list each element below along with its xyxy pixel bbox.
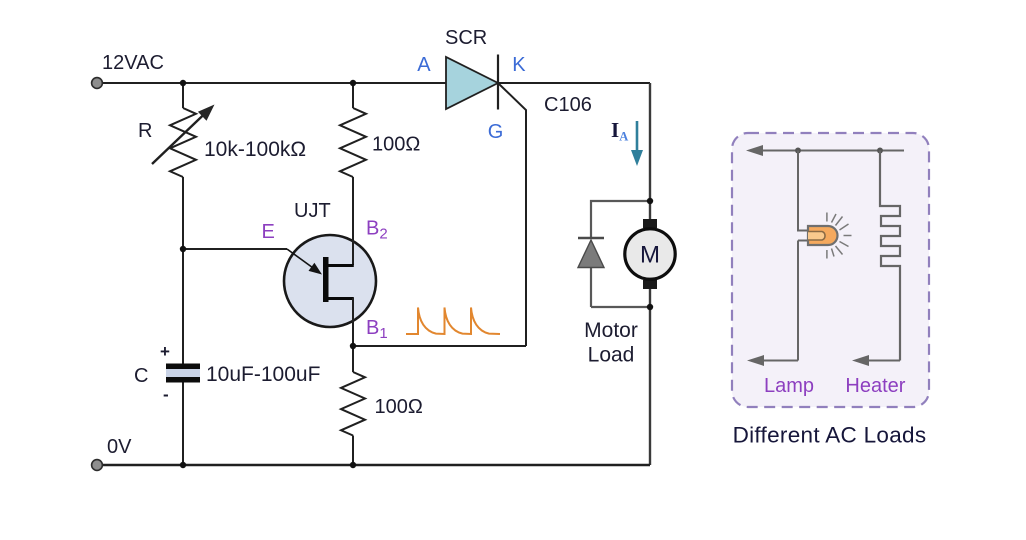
svg-text:Motor: Motor: [584, 319, 638, 342]
resistor 100ohm bottom wire upper: [352, 346, 354, 372]
junction dot bottom left: [180, 462, 186, 468]
junction dot B1 node: [350, 343, 356, 349]
svg-text:SCR: SCR: [445, 27, 487, 49]
svg-text:C106: C106: [544, 94, 592, 116]
svg-text:E: E: [262, 221, 275, 243]
resistor R arrow: [152, 105, 215, 165]
svg-text:-: -: [163, 385, 169, 404]
heater element: [880, 151, 900, 361]
wire UJT B1 down: [352, 298, 354, 346]
wire mid branch to UJT B2: [352, 177, 354, 265]
wire top rail 12VAC: [97, 82, 650, 84]
svg-text:Heater: Heater: [845, 375, 905, 397]
svg-text:A: A: [417, 54, 431, 76]
junction dot lamp: [795, 148, 801, 154]
junction dot top-mid branch: [350, 80, 356, 86]
wire left branch middle: [182, 177, 184, 364]
svg-text:G: G: [488, 121, 504, 143]
lamp branch wires: [798, 151, 808, 361]
UJT B2 stub: [328, 264, 354, 267]
junction dot bottom mid: [350, 462, 356, 468]
junction dot top-left branch: [180, 80, 186, 86]
terminal 12VAC: [92, 78, 103, 89]
svg-text:10k-100kΩ: 10k-100kΩ: [204, 138, 306, 161]
svg-text:+: +: [160, 342, 170, 361]
diode D1 triangle: [578, 240, 604, 268]
svg-text:100Ω: 100Ω: [372, 134, 420, 156]
svg-text:M: M: [640, 242, 660, 269]
svg-text:C: C: [134, 365, 148, 387]
lamp bottom arrow: [747, 355, 798, 366]
wire bottom rail 0V: [97, 464, 650, 466]
resistor R zigzag: [170, 108, 196, 177]
resistor 100ohm bottom zigzag: [341, 372, 365, 436]
wire left branch lower: [182, 382, 184, 465]
wire B1 node to gate: [353, 345, 526, 347]
wire right rail: [649, 83, 651, 465]
wire left branch upper: [182, 83, 184, 108]
current IA arrow: [631, 121, 643, 166]
svg-text:12VAC: 12VAC: [102, 52, 164, 74]
svg-text:Different AC Loads: Different AC Loads: [733, 423, 927, 448]
capacitor C plates: [166, 364, 200, 383]
svg-text:UJT: UJT: [294, 200, 331, 222]
svg-text:Load: Load: [588, 344, 635, 367]
box top wire with arrow: [746, 145, 904, 156]
wire SCR gate: [499, 84, 526, 346]
UJT base bar: [323, 257, 329, 302]
svg-text:10uF-100uF: 10uF-100uF: [206, 363, 320, 386]
motor M circle: [625, 219, 675, 289]
lamp bulb: [808, 226, 838, 245]
svg-text:Lamp: Lamp: [764, 375, 814, 397]
junction dot motor bottom: [647, 304, 653, 310]
UJT emitter arrow: [287, 249, 322, 275]
UJT B1 stub: [328, 297, 354, 300]
svg-text:K: K: [512, 54, 526, 76]
resistor 100ohm top zigzag: [340, 108, 366, 177]
resistor 100ohm bottom wire lower: [352, 436, 354, 466]
svg-text:R: R: [138, 120, 152, 142]
svg-text:0V: 0V: [107, 436, 132, 458]
SCR cathode bar: [497, 55, 499, 110]
wire mid branch upper: [352, 83, 354, 108]
lamp rays: [827, 213, 852, 259]
heater bottom arrow: [852, 355, 900, 366]
AC loads dashed box: [732, 133, 929, 407]
SCR triangle: [446, 57, 498, 109]
junction dot E node: [180, 246, 186, 252]
svg-text:100Ω: 100Ω: [375, 396, 423, 418]
terminal 0V: [92, 460, 103, 471]
UJT body circle: [284, 235, 376, 327]
motor bypass diode branch wires: [591, 201, 650, 307]
junction dot heater: [877, 148, 883, 154]
pulse waveform: [406, 308, 500, 335]
junction dot motor top: [647, 198, 653, 204]
wire emitter E: [183, 248, 287, 250]
diode D1 cathode bar: [578, 237, 604, 239]
